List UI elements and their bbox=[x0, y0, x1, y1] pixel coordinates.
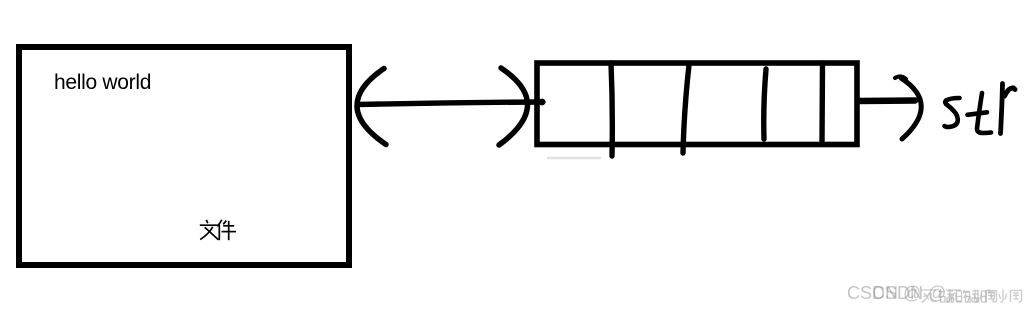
double arrow right head bbox=[499, 68, 528, 145]
char 文 horizontal bbox=[200, 224, 218, 226]
double arrow end dot bbox=[539, 99, 546, 106]
char 件 top tick bbox=[223, 221, 226, 225]
風 bbox=[986, 291, 997, 303]
handwritten letter t crossbar bbox=[968, 112, 988, 115]
file box bbox=[19, 47, 349, 265]
buffer divider 3 bbox=[764, 69, 766, 139]
text hello world bbox=[54, 71, 151, 95]
char 件 vertical bbox=[228, 221, 230, 240]
watermark CJK glyphs copy 1 bbox=[921, 290, 997, 303]
handwritten letter s bbox=[945, 98, 960, 127]
watermark CJK glyphs copy 2 bbox=[946, 290, 1022, 303]
死 bbox=[921, 290, 937, 303]
char 文 left-falling stroke bbox=[200, 227, 213, 240]
handwritten letter t stem bbox=[977, 93, 991, 133]
小 bbox=[974, 290, 982, 303]
buffer box bbox=[537, 63, 857, 145]
char 文 dot bbox=[200, 220, 236, 240]
handwritten letter r stem bbox=[1001, 84, 1003, 134]
str arrow head bbox=[901, 78, 921, 139]
watermark CSDN @ copy 2 bbox=[872, 283, 946, 304]
char 件 horizontal 2 bbox=[222, 231, 237, 233]
char 文 right-falling stroke bbox=[205, 227, 219, 240]
faint erased streak bbox=[548, 157, 600, 160]
的 bbox=[957, 290, 970, 303]
str arrow wire bbox=[858, 97, 915, 104]
watermark CSDN @ copy 1 bbox=[847, 283, 921, 304]
str arrow head flick bbox=[895, 76, 906, 79]
buffer divider 4 bbox=[819, 63, 825, 144]
char 件 person diagonal bbox=[217, 220, 222, 227]
磕 bbox=[939, 290, 954, 303]
double arrow wire bbox=[358, 102, 543, 105]
buffer divider 2 bbox=[683, 65, 689, 153]
buffer divider 1 bbox=[611, 63, 612, 156]
double arrow left head bbox=[357, 69, 386, 145]
char 件 person vertical bbox=[218, 225, 220, 241]
handwritten letter r shoulder bbox=[1005, 88, 1016, 96]
char 件 horizontal 1 bbox=[223, 225, 234, 227]
